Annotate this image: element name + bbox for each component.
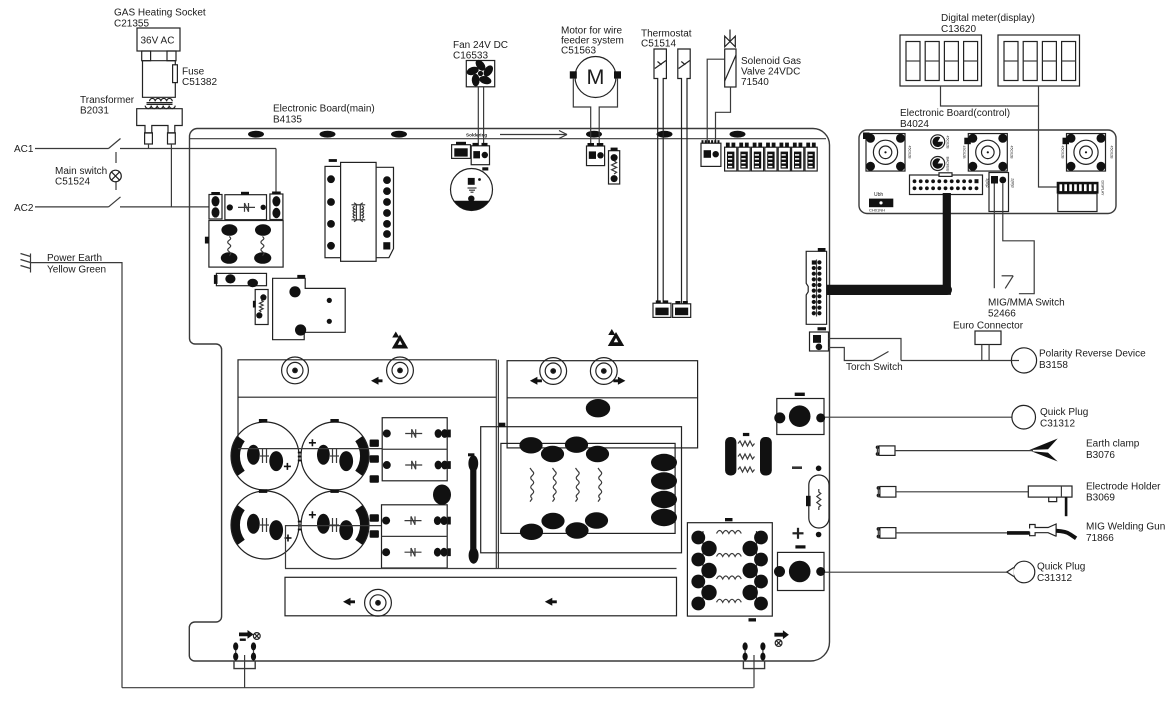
label MIG Welding Gun 71866 [1086,522,1165,545]
svg-text:Solenoid Gas: Solenoid Gas [741,56,801,67]
wire cap row 2 [286,526,382,569]
choke inner rect [501,443,675,533]
cap bank board band (left) [238,360,497,449]
label Motor for wire feeder system C51563 [561,26,624,57]
electronic board control B4024 outline [859,130,1116,214]
potentiometer 3 [1063,134,1106,172]
svg-text:B4135: B4135 [273,115,302,126]
label Main switch C51524 [55,166,107,188]
main transformer body [341,162,377,261]
series link marks row2 [298,522,302,530]
svg-text:71866: 71866 [1086,533,1114,544]
svg-text:AC1: AC1 [14,144,34,155]
earth ground screw icon left [239,630,260,641]
motor wires [573,79,617,146]
svg-text:B2031: B2031 [80,106,109,117]
svg-text:52466: 52466 [988,309,1016,320]
label Electrode Holder B3069 [1086,482,1161,504]
power earth symbol [21,254,31,273]
wire MIG/MMA pin2 down and around [1003,184,1034,294]
capacitor C2 [301,422,369,490]
flow arrow on top rail [500,131,567,139]
bottom board line [285,568,677,570]
capacitor can under fan connector [451,167,493,210]
label Thermostat C51514 [641,29,692,50]
MIG/MMA switch symbol [1002,276,1014,289]
label AC2 [14,203,34,214]
arrow right in right band [613,377,625,385]
thermostat connector block 2 [673,301,691,317]
board inner top rail line [190,138,826,140]
label Fan 24V DC C16533 [453,40,508,62]
wire power earth [31,263,123,688]
potentiometer 2 [964,134,1007,172]
solder pad ovals on top rail [248,131,264,138]
svg-text:C13620: C13620 [941,24,976,35]
thermostat connector block 1 [653,300,671,317]
switch link dashes [115,152,117,190]
esd warning triangle [608,329,624,346]
svg-text:Fan 24V DC: Fan 24V DC [453,40,508,51]
label Transformer B2031 [80,95,135,117]
solder oval in right band [586,399,610,417]
label Solenoid Gas Valve 24VDC 71540 [741,56,801,88]
wire to electrode holder [896,491,1028,493]
svg-text:Main switch: Main switch [55,166,107,177]
output terminal lower (positive) [774,552,825,590]
electrode holder pigtail connector [877,486,896,497]
wire lower terminal to quick plug [825,571,1014,573]
capacitor top tabs [259,419,267,423]
IGBT band (right) [507,361,697,448]
main switch C51524 pole 1 [109,139,121,149]
wire transformer left leg to AC1 [148,144,150,149]
connector row on main board (7 blocks) [725,143,737,171]
fan connector (right) [471,143,489,165]
svg-text:Electronic Board(main): Electronic Board(main) [273,104,375,115]
wire to MIG gun thin [896,532,1007,534]
solenoid wires [707,59,730,143]
svg-text:BACKBU: BACKBU [946,157,950,172]
svg-text:B3158: B3158 [1039,360,1068,371]
svg-text:B4024: B4024 [900,119,929,130]
torch switch blade [873,352,889,361]
svg-text:C31312: C31312 [1040,419,1075,430]
mounting hole B2 [590,358,617,385]
svg-text:Fuse: Fuse [182,67,205,78]
electronic board main B4135 outline [189,129,829,662]
snubber resistor block [725,433,772,476]
output terminal upper (negative) [774,393,825,435]
svg-text:Polarity Reverse Device: Polarity Reverse Device [1039,349,1146,360]
label Earth clamp B3076 [1086,439,1140,462]
socket legs [142,51,176,61]
capacitor C1 [231,422,299,490]
label Euro Connector [953,321,1024,332]
svg-text:Earth clamp: Earth clamp [1086,439,1140,450]
earth clamp pigtail connector [876,446,895,456]
wire upper terminal to quick plug [825,416,1012,418]
MIG gun pigtail connector [877,527,896,538]
gas valve connector [701,140,721,166]
main transformer left pin column [325,159,342,258]
thermostat C51514 rail 1 [654,49,666,303]
label AC1 [14,144,34,155]
svg-text:MIG/MMA Switch: MIG/MMA Switch [988,298,1065,309]
output transformer [687,518,772,622]
quick plug lower C31312 [1007,561,1035,583]
arrow bottom band 1 [343,598,355,606]
diode block pair upper [382,418,451,481]
svg-text:Quick Plug: Quick Plug [1037,562,1085,573]
wire AC2 line [35,206,209,208]
earth connector left [236,643,254,661]
transformer B2031 symbol [145,98,175,108]
label MIG/MMA Switch 52466 [988,298,1065,320]
wire to earth clamp [895,450,1033,452]
solenoid gas valve symbol [725,30,736,47]
minus tick above lower terminal [795,545,805,548]
fan C16533 [466,58,495,87]
header connector 20 pin [910,173,983,195]
rectifier left pin block [209,192,222,219]
aux contact strip [214,273,267,287]
label Quick Plug C31312 (upper) [1040,407,1088,430]
jumper block lower-left of control board [869,192,893,213]
bottom band rect [285,577,677,616]
display connector comb [1057,182,1099,212]
wire bottom earth run [122,687,754,689]
socket body [143,61,176,98]
current shunt capsule [806,466,829,538]
main switch lamp [110,170,122,182]
capacitor C4 [301,491,369,559]
rectifier middle box with diode [225,192,267,220]
solder pads column left of diode blocks [370,440,379,447]
transformer lower body [137,109,183,133]
svg-text:C51524: C51524 [55,177,90,188]
diode block pair lower [382,505,451,568]
label Electronic Board(control) B4024 [900,108,1010,130]
cap bank right edge double line [496,360,498,569]
series link marks row1 [298,453,302,461]
label Electronic Board(main) B4135 [273,104,375,126]
earth connector right [745,643,763,661]
wire torch connector run A [829,339,902,361]
svg-text:Torch Switch: Torch Switch [846,362,903,373]
svg-text:Euro Connector: Euro Connector [953,321,1024,332]
thermostat rail 2 [678,49,690,304]
resistor beside motor connector [609,148,620,184]
rectifier right pin block [270,192,283,220]
digital meter display box 2 [998,35,1080,86]
gas heating socket 36V AC box [137,28,180,51]
label GAS Heating Socket C21355 [114,8,206,30]
arrow in left band [371,377,383,385]
solenoid coil body [725,49,736,87]
MIG gun cable thick [1007,531,1031,535]
mounting hole A2 [387,357,414,384]
digital meter display C13620 box 1 [900,35,982,86]
choke outer rect [481,427,682,553]
label Digital meter(display) C13620 [941,13,1035,35]
svg-text:B3076: B3076 [1086,450,1115,461]
svg-text:Valve 24VDC: Valve 24VDC [741,67,800,78]
svg-text:C51514: C51514 [641,39,676,50]
quick plug upper C31312 [1012,405,1036,429]
esd warning triangle [392,332,408,349]
euro connector wires [982,345,989,361]
plus sign above lower terminal [793,528,804,539]
thick ribbon cable [943,193,951,295]
svg-text:36V AC: 36V AC [141,36,175,47]
wire torch switch to polarity device [901,360,1012,362]
svg-text:3(M)2: 3(M)2 [985,178,989,187]
svg-text:45C02B: 45C02B [1061,146,1065,160]
capacitor crescents [235,439,364,543]
relay / contactor body [205,221,283,268]
svg-text:C51563: C51563 [561,46,596,57]
MIG gun neck [1056,531,1076,539]
svg-text:Digital meter(display): Digital meter(display) [941,13,1035,24]
bleeder resistor strip [253,290,268,325]
svg-text:M: M [587,65,605,89]
fan connector (left) [452,142,471,159]
svg-text:DISPLAY: DISPLAY [1101,181,1105,197]
svg-text:45C02B: 45C02B [908,146,912,160]
mounting hole A1 [282,357,309,384]
choke right pad ovals [651,454,677,471]
solder oval between diode pairs [433,485,451,505]
svg-text:71540: 71540 [741,77,769,88]
svg-text:45C02B: 45C02B [1010,146,1014,160]
choke winding squiggles [530,468,534,502]
label Fuse C51382 [182,67,217,89]
junction tick on choke top edge [499,423,505,427]
svg-text:C31312: C31312 [1037,573,1072,584]
motor connector [587,143,605,166]
label Polarity Reverse Device B3158 [1039,349,1146,372]
mounting hole B1 [540,358,567,385]
torch switch connector on main board [810,332,829,351]
motor M C51563 [570,57,621,98]
main transformer right pin column [376,167,393,257]
potentiometer 1 [863,133,905,172]
earth ground screw icon right [774,630,789,646]
vertical busbar [468,453,479,563]
main switch pole 2 [109,197,121,207]
svg-text:C16533: C16533 [453,51,488,62]
trimmer 1 [931,135,945,149]
polarity reverse device B3158 [1011,348,1036,373]
transformer legs [145,133,176,144]
svg-text:AC2: AC2 [14,203,34,214]
16 pin connector on main board [806,248,826,330]
wire meters to control board [941,86,1057,187]
svg-text:MIG Welding Gun: MIG Welding Gun [1086,522,1165,533]
capacitor C3 [231,491,299,559]
arrow bottom band 2 [545,598,557,606]
svg-text:Yellow Green: Yellow Green [47,265,106,276]
wire torch connector run B [829,348,873,361]
MIG gun 71866 body [1030,524,1057,536]
svg-text:Ubh: Ubh [874,192,883,198]
svg-text:Electrode Holder: Electrode Holder [1086,482,1161,493]
mounting hole bottom [365,589,392,616]
trimmer 2 [931,157,945,171]
svg-text:Quick Plug: Quick Plug [1040,407,1088,418]
earth clamp B3076 jaws [1029,439,1057,462]
svg-text:CH01NH: CH01NH [869,208,885,213]
MIG/MMA connector on control board [989,173,1009,212]
fuse C51382 [173,65,178,83]
wire AC1 drop to rectifier [275,149,277,195]
svg-text:45C02B: 45C02B [1110,146,1114,160]
wire transformer right leg to AC2 [170,144,172,207]
arrow left in right band [530,377,542,385]
electrode holder B3069 body [1028,486,1072,516]
svg-text:45C02B: 45C02B [946,136,950,150]
svg-text:B3069: B3069 [1086,493,1115,504]
driver pcb polygon [273,275,346,340]
svg-text:GAS Heating Socket: GAS Heating Socket [114,8,206,19]
euro connector box [975,331,1001,345]
label Quick Plug C31312 (lower) [1037,562,1085,585]
minus sign above shunt [792,466,802,469]
svg-text:Transformer: Transformer [80,95,135,106]
svg-text:Electronic Board(control): Electronic Board(control) [900,108,1010,119]
svg-text:C51382: C51382 [182,77,217,88]
choke top pad ovals [519,437,542,453]
label Power Earth Yellow Green [47,253,106,276]
label Torch Switch [846,362,903,373]
wire MIG/MMA pin1 down [993,184,995,289]
wire cap row 1 [238,448,382,450]
svg-text:45C02B: 45C02B [962,146,966,160]
fan wires [478,87,483,146]
wire AC1 line [35,148,276,150]
choke bottom pad ovals [520,524,543,540]
svg-text:2(M)3: 2(M)3 [1011,178,1015,187]
